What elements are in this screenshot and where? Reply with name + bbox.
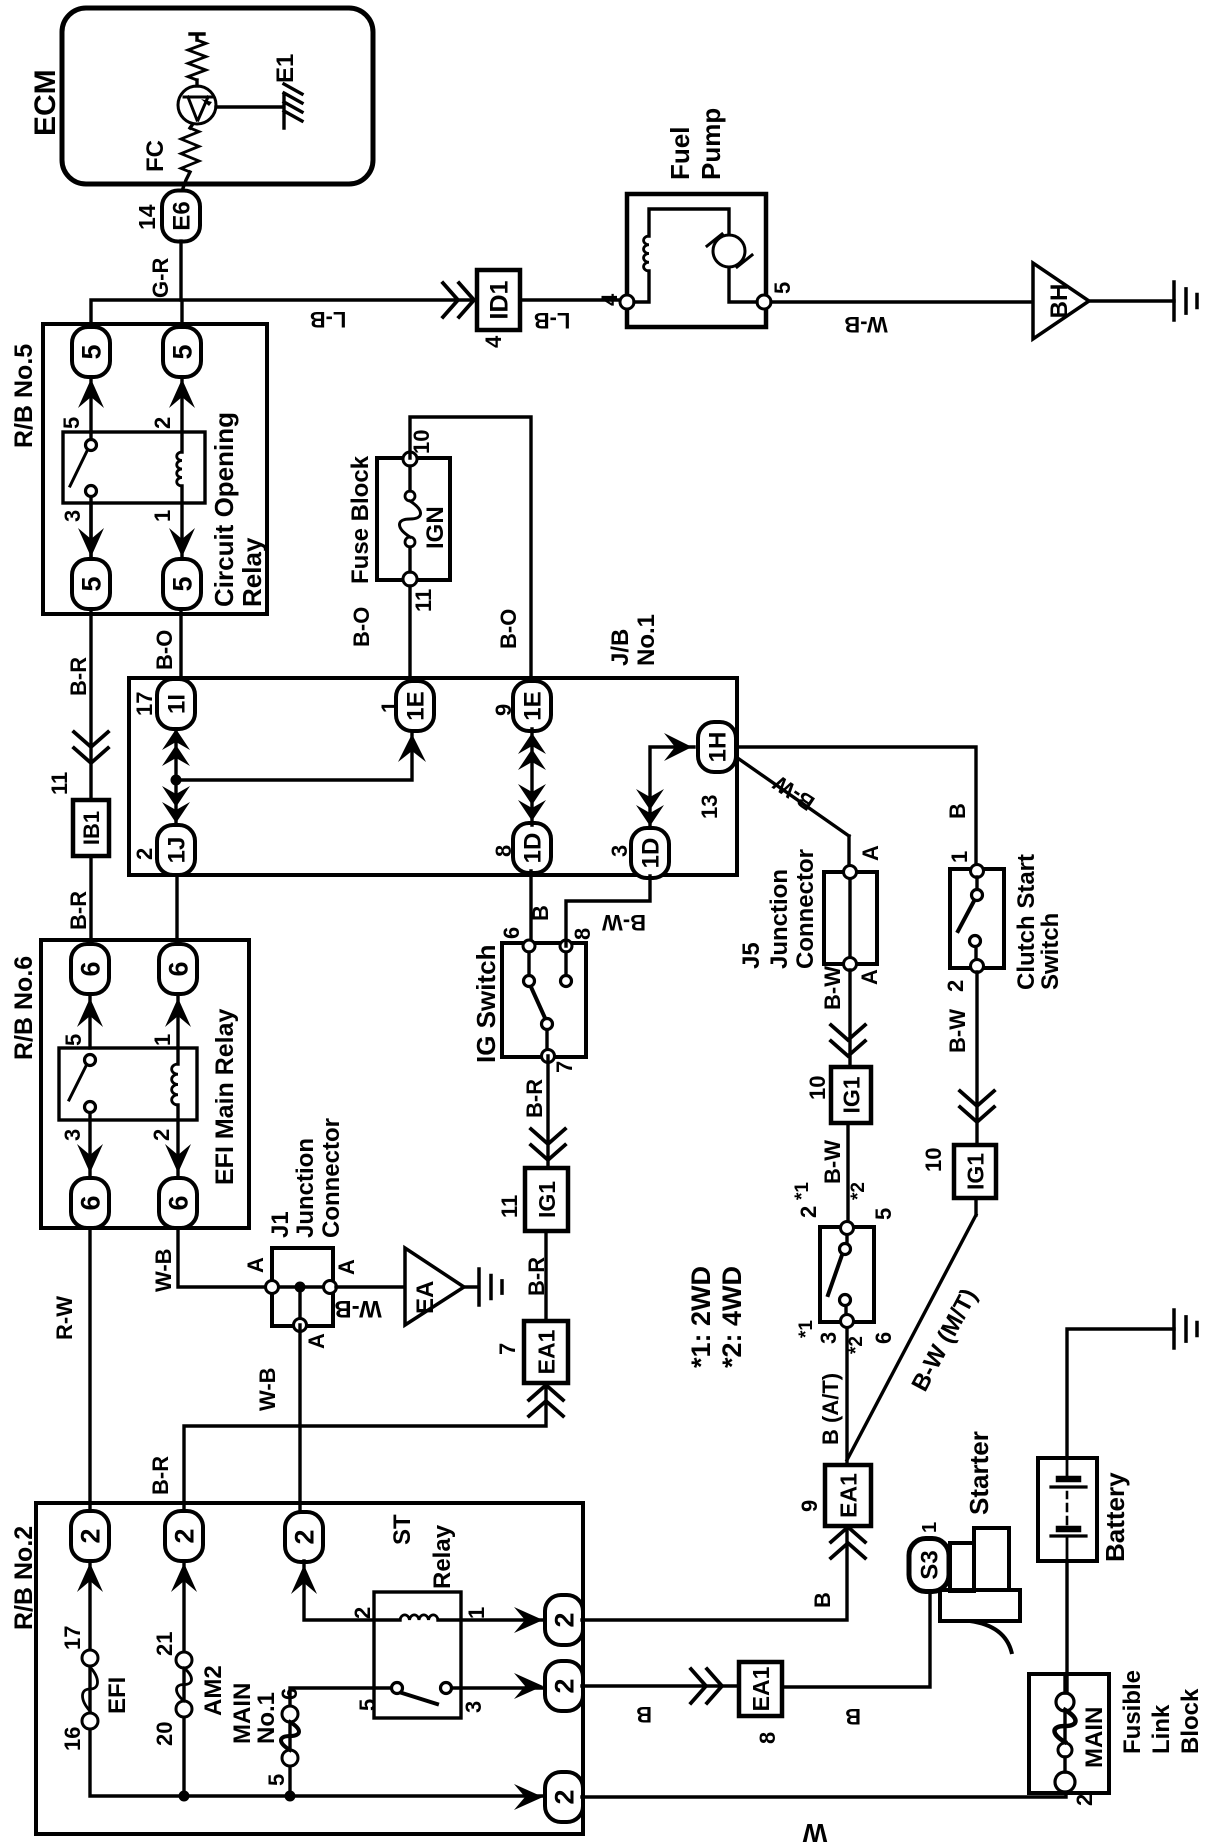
connector IG1 pin 10 at	[831, 1067, 871, 1123]
fuse block box	[377, 458, 450, 580]
wire B-W IG1 to AT switch	[846, 1123, 849, 1221]
svg-text:Fuse Block: Fuse Block	[347, 455, 374, 584]
MAIN No.1 circle top	[282, 1706, 298, 1722]
svg-text:2: 2	[150, 417, 175, 429]
svg-text:Clutch Start: Clutch Start	[1013, 854, 1040, 990]
ST contact bottom	[441, 1683, 452, 1694]
arrow to oval 6 top right	[77, 998, 103, 1027]
resistor FC	[181, 128, 199, 172]
wire battery to ground	[1067, 1329, 1174, 1458]
J1 junction connector box	[272, 1248, 333, 1326]
svg-text:1E: 1E	[520, 691, 547, 720]
wire MAIN fuse to contact	[290, 1688, 397, 1796]
fusible circle right	[1056, 1693, 1074, 1711]
J5 internal wire	[848, 878, 851, 958]
svg-text:EA1: EA1	[748, 1666, 774, 1711]
arrow into 1I a	[162, 729, 190, 750]
IG switch pin 6	[523, 940, 535, 952]
svg-text:10: 10	[921, 1148, 946, 1172]
svg-text:21: 21	[152, 1632, 177, 1656]
svg-text:B-O: B-O	[496, 609, 521, 649]
connector 2 st coil out	[545, 1595, 583, 1645]
wire B-W IG8 to 1D3	[566, 876, 650, 946]
svg-text:17: 17	[132, 692, 157, 716]
clutch inner 2	[970, 936, 981, 947]
J/B No.1 box	[129, 678, 737, 875]
wire transistor to pull-up resistor	[195, 80, 198, 86]
arrow into 1I b	[162, 745, 190, 766]
ECM box	[62, 8, 373, 184]
fusible circle mid	[1058, 1743, 1072, 1757]
svg-text:IGN: IGN	[422, 506, 449, 549]
svg-text:*1: 2WD: *1: 2WD	[686, 1266, 716, 1368]
contact point right	[86, 440, 97, 451]
wire col1 inner	[90, 1561, 546, 1796]
svg-text:ECM: ECM	[29, 69, 62, 136]
MAIN fusible element	[1055, 1710, 1076, 1742]
ground for battery	[1174, 1310, 1197, 1348]
svg-text:A: A	[334, 1259, 359, 1275]
wire resistor to supply tick	[190, 34, 204, 40]
EFI fuse element	[83, 1667, 98, 1711]
connector chevrons to IG1 10 at	[831, 1025, 865, 1056]
svg-text:5: 5	[77, 576, 107, 591]
connector chevrons to EA1 8	[691, 1669, 722, 1703]
svg-text:1: 1	[377, 701, 402, 713]
wire coil row left No.6	[176, 1105, 179, 1178]
fuse pin 11 circle	[403, 572, 417, 586]
svg-text:3: 3	[461, 1701, 486, 1713]
connector 1D pin 8	[513, 823, 551, 873]
svg-text:7: 7	[495, 1343, 520, 1355]
svg-text:B-R: B-R	[522, 1079, 547, 1118]
AM2 fuse circle right	[176, 1652, 192, 1668]
fuel pump box	[627, 194, 766, 327]
svg-text:W: W	[802, 1818, 827, 1848]
clutch pin1 stub	[975, 877, 978, 889]
circuit opening relay internal box	[63, 432, 205, 503]
svg-text:Fusible: Fusible	[1119, 1670, 1146, 1754]
wire EA to ground	[464, 1285, 477, 1288]
AT inner 2	[840, 1295, 851, 1306]
svg-text:Battery: Battery	[1100, 1472, 1130, 1562]
connector chevrons to IG1 11	[531, 1129, 565, 1160]
clutch switch arm	[958, 901, 974, 931]
svg-text:W-B: W-B	[844, 312, 888, 337]
svg-text:B: B	[945, 803, 970, 819]
connector 6 top left	[71, 1178, 109, 1228]
arrow to oval col2	[171, 1563, 197, 1592]
wire ID1 to fuel pump	[520, 298, 621, 301]
IG inner contact 6	[524, 976, 535, 987]
svg-text:B-W: B-W	[602, 910, 646, 935]
wire W main oval to fusible link	[582, 1782, 1066, 1797]
wire B-R pin7 to IG1	[546, 1056, 549, 1168]
R/B No.2 box	[36, 1503, 583, 1834]
arrow to st contact oval	[514, 1673, 543, 1699]
IG switch pin 8	[560, 940, 572, 952]
connector ID1	[477, 270, 520, 330]
fuse stub right	[408, 466, 411, 491]
arrow into 1D pin8 a	[518, 800, 546, 821]
ST contact top	[392, 1683, 403, 1694]
AM2 fuse element	[177, 1668, 192, 1701]
arrow into 1D pin3 b	[636, 789, 664, 810]
J1 pin A right	[266, 1281, 279, 1294]
arrow to oval 5 top right	[78, 379, 104, 408]
svg-text:5: 5	[355, 1699, 380, 1711]
svg-text:G-R: G-R	[148, 258, 173, 298]
connector 5 bottom right	[163, 327, 201, 377]
svg-text:Junction: Junction	[766, 869, 793, 969]
svg-text:IG1: IG1	[962, 1153, 988, 1190]
fuse inner circle right	[405, 491, 415, 501]
wire R-W No.6 to No.2	[88, 1230, 91, 1510]
J/B internal bus 1I to 1J and 1E	[176, 729, 412, 825]
relay coil of circuit opening relay	[177, 452, 182, 486]
resistor in ECM to B+	[188, 40, 206, 80]
svg-text:9: 9	[797, 1500, 822, 1512]
arrow into 1D pin8 b	[518, 784, 546, 805]
J5 junction connector box	[824, 872, 877, 964]
svg-text:*2: *2	[848, 1182, 869, 1200]
fuse pin 10 circle	[403, 452, 417, 466]
connector chevrons to IG1 10 clutch	[960, 1091, 994, 1122]
connector IB1	[73, 800, 109, 856]
wire BH to ground	[1089, 299, 1174, 302]
AT pin stub right	[845, 1235, 848, 1243]
ground after EA	[479, 1269, 502, 1305]
svg-text:1D: 1D	[638, 838, 665, 869]
fusible circle left	[1055, 1772, 1075, 1792]
svg-text:2: 2	[550, 1789, 580, 1804]
svg-text:4: 4	[481, 335, 506, 348]
wire W-B J1 to R/B No.2	[298, 1325, 301, 1511]
J/B internal bus 1D3 to 1H	[650, 747, 694, 828]
wire B 1D8 to IG switch	[529, 871, 532, 946]
connector EA1 pin 7	[524, 1321, 568, 1383]
wire B-W clutch to IG1 10	[975, 972, 978, 1145]
svg-text:1E: 1E	[403, 691, 430, 720]
connector 1E pin 9	[513, 681, 551, 731]
svg-text:5: 5	[77, 344, 107, 359]
arrow to oval 5 top left	[78, 528, 104, 557]
fuel pump internal wire	[634, 209, 757, 302]
svg-text:L-B: L-B	[534, 308, 571, 333]
svg-text:2: 2	[550, 1612, 580, 1627]
svg-text:B-W: B-W	[820, 1140, 845, 1184]
fuel pump pin 4	[620, 295, 634, 309]
svg-text:6: 6	[76, 961, 106, 976]
fuel pump pin 5	[757, 295, 771, 309]
svg-text:J/B: J/B	[607, 629, 634, 666]
connector 2 main out	[545, 1772, 583, 1822]
connector 1E pin 1	[396, 681, 434, 731]
svg-text:1: 1	[947, 851, 972, 863]
svg-text:8: 8	[491, 845, 516, 857]
junction dot in J/B No.1	[171, 775, 182, 786]
svg-text:Relay: Relay	[237, 537, 267, 607]
ST relay coil	[400, 1615, 438, 1620]
svg-text:A: A	[243, 1257, 268, 1273]
svg-text:6: 6	[164, 961, 194, 976]
svg-text:2: 2	[132, 848, 157, 860]
svg-text:17: 17	[60, 1626, 85, 1650]
svg-text:3: 3	[60, 510, 85, 522]
arrow to oval col1	[77, 1563, 103, 1592]
svg-text:B: B	[528, 905, 553, 921]
arrow into 1E pin1	[398, 734, 426, 762]
contact point left No.6	[85, 1102, 96, 1113]
wire battery to fusible link	[1065, 1561, 1068, 1693]
svg-text:11: 11	[47, 772, 72, 795]
wire W-B pump to BH	[771, 300, 1033, 303]
svg-text:2: 2	[550, 1678, 580, 1693]
connector 1I pin 17	[157, 679, 195, 729]
EFI fuse circle left	[82, 1713, 98, 1729]
svg-text:1H: 1H	[705, 732, 732, 763]
contact point left	[86, 486, 97, 497]
AT switch bottom pin	[841, 1315, 854, 1328]
connector 6 bottom left	[159, 1178, 197, 1228]
IG switch arm	[531, 987, 545, 1018]
svg-text:6: 6	[277, 1688, 302, 1700]
svg-text:EA1: EA1	[835, 1473, 861, 1518]
bus dot MAIN	[285, 1791, 296, 1802]
connector 5 top left	[72, 559, 110, 609]
clutch inner 1	[972, 890, 983, 901]
svg-text:W-B: W-B	[255, 1367, 280, 1411]
svg-text:W-B: W-B	[151, 1248, 176, 1292]
svg-text:EA: EA	[412, 1281, 439, 1314]
svg-text:E1: E1	[272, 54, 299, 83]
svg-text:BH: BH	[1046, 284, 1073, 319]
wire transistor to E1 ground	[216, 105, 283, 108]
wire col3 to ST coil	[304, 1561, 546, 1620]
J1 junction dot	[295, 1282, 306, 1293]
wire col2 inner	[182, 1561, 185, 1796]
svg-text:14: 14	[134, 204, 160, 230]
arrow to oval 5 bottom right	[169, 379, 195, 408]
fuse inner circle left	[405, 537, 415, 547]
svg-text:E6: E6	[169, 201, 196, 230]
svg-text:Block: Block	[1177, 1688, 1204, 1754]
svg-text:IB1: IB1	[79, 811, 104, 845]
svg-text:5: 5	[264, 1774, 289, 1786]
contact point right No.6	[85, 1055, 96, 1066]
svg-text:3: 3	[607, 845, 632, 857]
MAIN No.1 fuse element	[281, 1722, 299, 1750]
svg-text:6: 6	[164, 1195, 194, 1210]
svg-text:B-R: B-R	[524, 1257, 549, 1296]
svg-text:2: 2	[290, 1529, 320, 1544]
svg-text:4: 4	[597, 293, 622, 306]
svg-text:Connector: Connector	[318, 1118, 345, 1238]
svg-text:8: 8	[570, 928, 595, 940]
svg-text:Circuit Opening: Circuit Opening	[209, 412, 239, 607]
fusible link block box	[1029, 1674, 1109, 1793]
svg-text:10: 10	[409, 430, 434, 454]
connector 2 st contact out	[545, 1661, 583, 1711]
transistor Q1 in ECM	[178, 86, 216, 124]
wire B st contact to EA1 8	[582, 1684, 739, 1687]
svg-text:B-W: B-W	[820, 966, 845, 1010]
svg-text:2: 2	[350, 1607, 375, 1619]
J5 pin A right	[844, 866, 857, 879]
svg-text:5: 5	[871, 1208, 896, 1220]
fuel pump motor	[707, 234, 752, 267]
wire FC resistor to transistor	[190, 121, 195, 128]
wire contact stub left	[89, 497, 92, 559]
arrow into 1E pin9 a	[518, 733, 546, 754]
wire B-R IG1 to EA1	[544, 1231, 547, 1321]
arrow to oval 5 bottom left	[169, 528, 195, 557]
arrow to st coil oval	[514, 1607, 543, 1633]
battery cells	[1051, 1458, 1086, 1561]
svg-text:5: 5	[61, 1034, 86, 1046]
ST relay contact arm	[402, 1693, 437, 1704]
connector chevrons to IB1	[74, 732, 108, 763]
svg-text:1J: 1J	[164, 837, 191, 864]
svg-text:FC: FC	[142, 140, 169, 172]
noise filter BH	[1033, 263, 1089, 339]
relay contact arm No.6	[69, 1066, 86, 1100]
svg-text:1I: 1I	[164, 694, 191, 714]
svg-text:11: 11	[497, 1195, 522, 1218]
svg-text:*1: *1	[796, 1320, 817, 1338]
connector E6 pin 14	[162, 191, 200, 242]
arrow to oval 6 top left	[77, 1144, 103, 1173]
svg-text:2: 2	[76, 1528, 106, 1543]
svg-text:A: A	[858, 845, 883, 861]
svg-text:2: 2	[1072, 1794, 1097, 1806]
svg-text:1: 1	[919, 1522, 941, 1533]
wire B-R IB1 to R/B No.6	[89, 856, 92, 940]
R/B No.5 box	[43, 324, 267, 614]
clutch pin 2	[971, 960, 984, 973]
ECM ground E1	[284, 84, 302, 128]
wire contact stub right	[89, 432, 92, 439]
A/T park neutral switch box	[820, 1227, 874, 1322]
svg-text:R/B No.2: R/B No.2	[10, 1526, 38, 1630]
svg-text:6: 6	[871, 1332, 896, 1344]
svg-text:MAIN: MAIN	[229, 1683, 256, 1744]
svg-text:R/B No.6: R/B No.6	[10, 956, 38, 1060]
svg-text:IG Switch: IG Switch	[471, 945, 501, 1063]
svg-text:1: 1	[150, 510, 175, 522]
svg-text:EA1: EA1	[533, 1329, 559, 1374]
fuse stub left	[408, 547, 411, 572]
svg-text:10: 10	[805, 1076, 830, 1100]
wire E6 to FC resistor	[182, 172, 190, 191]
wire G-R from E6	[179, 241, 182, 300]
wire B st coil to EA1 9	[582, 1526, 847, 1620]
relay coil of EFI main relay	[172, 1064, 178, 1105]
svg-text:B-O: B-O	[349, 607, 374, 647]
wire W-B No.6 to J1	[178, 1228, 266, 1287]
svg-text:Junction: Junction	[292, 1138, 319, 1238]
connector 1D pin 3	[631, 828, 669, 878]
relay contact arm	[70, 451, 87, 486]
svg-text:Starter: Starter	[964, 1431, 994, 1515]
wire B EA1 8 to starter	[782, 1591, 930, 1687]
svg-text:Pump: Pump	[696, 108, 726, 180]
arrow to oval 6 bottom right	[165, 998, 191, 1027]
EFI main relay internal box	[59, 1048, 197, 1120]
svg-text:IG1: IG1	[534, 1181, 560, 1218]
svg-text:2: 2	[796, 1206, 821, 1218]
IG arm circle	[542, 1019, 553, 1030]
svg-text:8: 8	[755, 1732, 780, 1744]
connector 6 top right	[71, 944, 109, 994]
svg-text:5: 5	[168, 344, 198, 359]
svg-text:B (A/T): B (A/T)	[818, 1373, 843, 1445]
svg-text:B-O: B-O	[152, 630, 177, 670]
clutch start switch box	[950, 869, 1004, 968]
arrow to oval 6 bottom left	[165, 1144, 191, 1173]
connector EA1 pin 9	[825, 1465, 871, 1526]
svg-text:B-R: B-R	[148, 1456, 173, 1495]
svg-text:6: 6	[499, 927, 524, 939]
wire B-O R/B No.5 to 1I	[179, 609, 182, 681]
AT switch top pin	[841, 1222, 854, 1235]
wire relay pin 5 to oval 6	[88, 994, 91, 1048]
arrow into 1H	[664, 733, 692, 761]
starter body	[940, 1528, 1020, 1654]
svg-text:7: 7	[552, 1061, 577, 1073]
connector 2 col1	[71, 1511, 109, 1561]
IG inner contact 8	[561, 976, 572, 987]
ST relay internal box	[374, 1592, 461, 1718]
clutch inner2 stub	[974, 947, 977, 960]
J1 pin A bottom	[294, 1319, 307, 1332]
wire B-O fuse 11 to 1E1	[408, 586, 411, 680]
IG pin8 stub	[564, 952, 567, 975]
svg-text:B-W: B-W	[945, 1009, 970, 1053]
ground amplifier EA	[405, 1248, 464, 1325]
svg-text:6: 6	[76, 1195, 106, 1210]
fusible stubs	[1063, 1674, 1066, 1772]
svg-text:No.1: No.1	[633, 614, 660, 666]
svg-text:No.1: No.1	[253, 1692, 280, 1744]
svg-text:11: 11	[411, 589, 436, 612]
wire B-R oval5 to IB1	[89, 609, 92, 800]
svg-text:B-R: B-R	[66, 891, 91, 930]
svg-text:3: 3	[816, 1332, 841, 1344]
arrow to oval col3	[291, 1565, 317, 1594]
svg-text:2: 2	[170, 1528, 200, 1543]
IG switch box	[502, 943, 586, 1057]
svg-text:A: A	[857, 969, 882, 985]
svg-text:S3: S3	[917, 1550, 944, 1579]
svg-text:9: 9	[491, 704, 516, 716]
svg-text:MAIN: MAIN	[1081, 1707, 1108, 1768]
svg-text:J5: J5	[738, 942, 765, 969]
connector 5 bottom left	[163, 559, 201, 609]
svg-text:ST: ST	[389, 1514, 416, 1545]
svg-text:B: B	[845, 1704, 861, 1729]
wire relay pin 5 to oval	[89, 377, 92, 432]
arrow to main oval	[514, 1784, 543, 1810]
wire coil row left	[180, 486, 183, 559]
svg-text:2: 2	[149, 1129, 174, 1141]
AT inner 1	[840, 1244, 851, 1255]
connector EA1 pin 8	[739, 1662, 782, 1716]
J1 pin A left	[324, 1281, 337, 1294]
svg-text:Link: Link	[1148, 1704, 1175, 1754]
svg-text:Fuel: Fuel	[665, 127, 695, 180]
svg-text:Connector: Connector	[792, 849, 819, 969]
